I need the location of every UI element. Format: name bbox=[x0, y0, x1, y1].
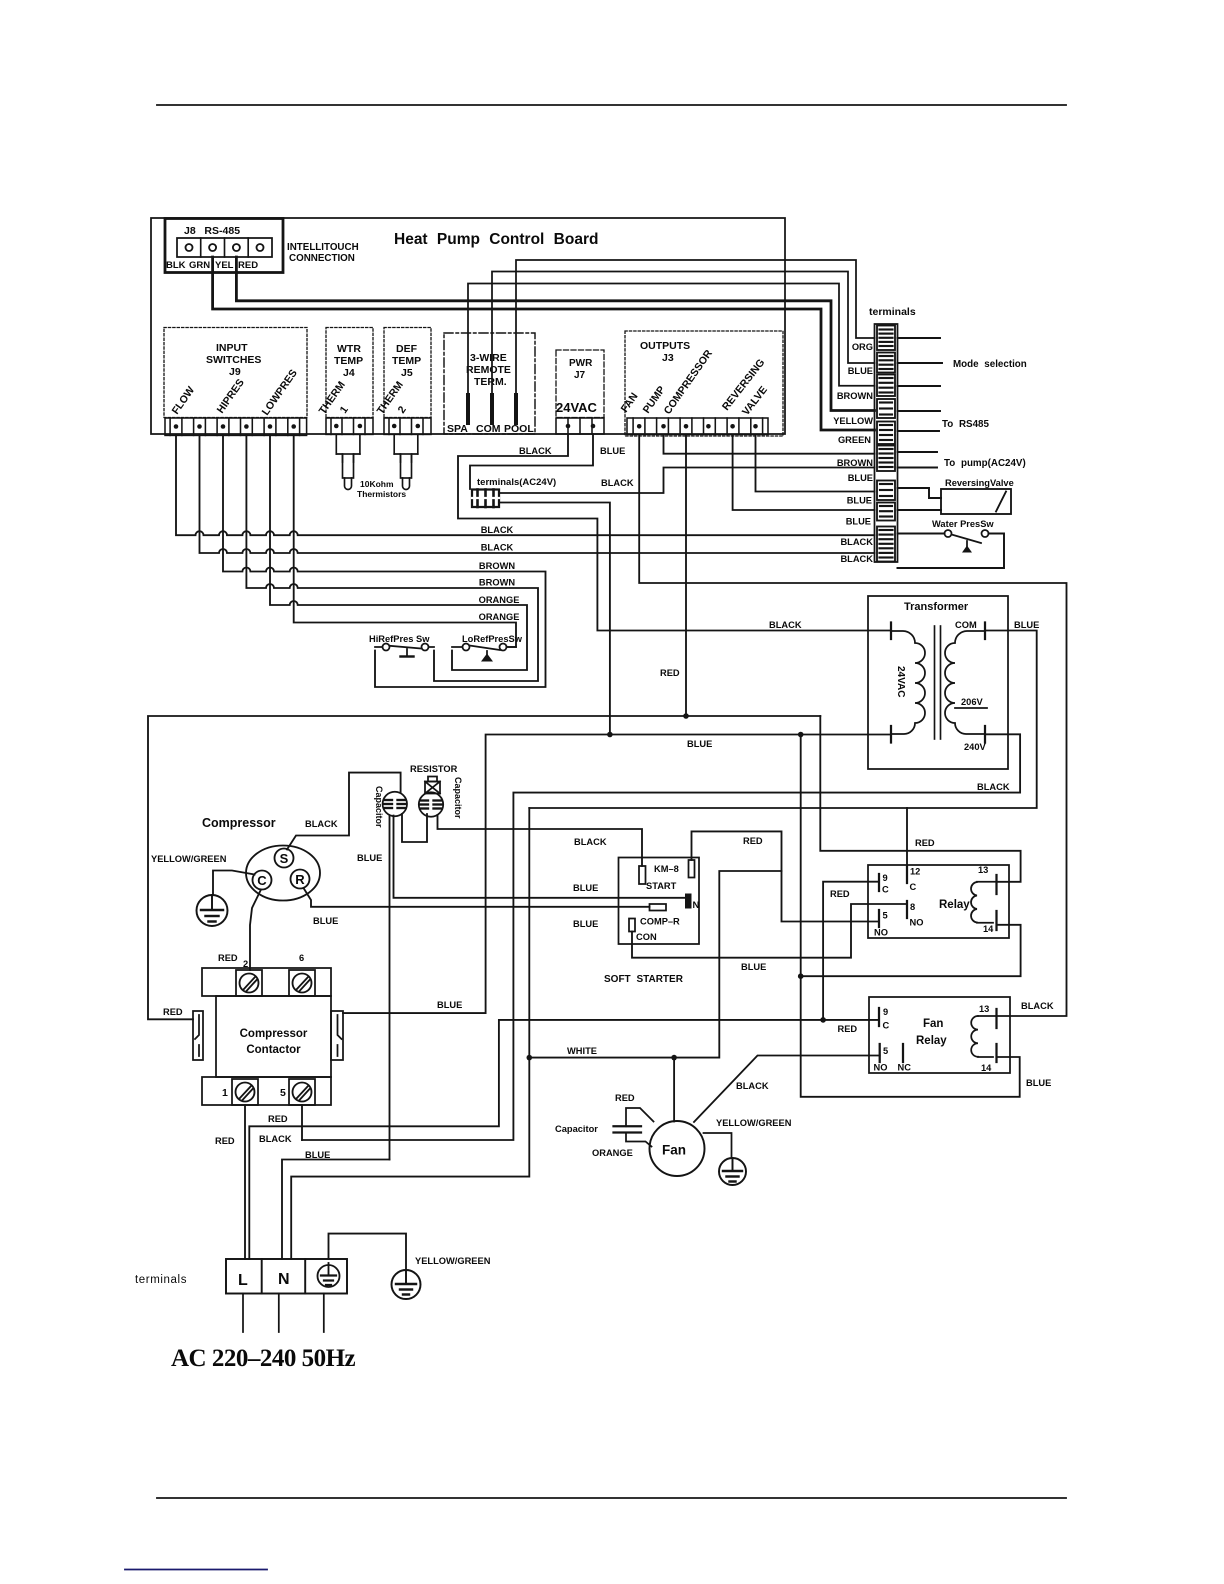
svg-text:WTR: WTR bbox=[337, 343, 361, 355]
svg-text:TEMP: TEMP bbox=[392, 355, 421, 367]
strip box COM bbox=[877, 353, 895, 373]
svg-text:C: C bbox=[882, 885, 889, 895]
svg-text:SWITCHES: SWITCHES bbox=[206, 354, 261, 366]
label RED vert bbox=[215, 1136, 235, 1146]
wire J9 FLOW-1 black long bbox=[176, 435, 875, 535]
svg-text:ORANGE: ORANGE bbox=[592, 1148, 633, 1158]
svg-text:FLOW: FLOW bbox=[170, 384, 198, 416]
strip box IT bbox=[877, 399, 895, 418]
svg-text:RED: RED bbox=[218, 953, 238, 963]
J8 labels bbox=[166, 225, 258, 271]
wire S black to capacitor bbox=[287, 773, 401, 850]
label Water PresSw bbox=[932, 519, 994, 529]
contactor screw 1 bbox=[236, 1083, 255, 1102]
svg-text:WHITE: WHITE bbox=[567, 1046, 597, 1056]
dashed box WTR TEMP J4 bbox=[326, 328, 373, 418]
label YELLOW/GREEN bottom bbox=[415, 1256, 491, 1266]
wire strip RV2 to valve bbox=[898, 509, 942, 511]
label BLUE contactor6 bbox=[437, 1000, 462, 1010]
svg-text:AC 220–240 50Hz: AC 220–240 50Hz bbox=[171, 1345, 356, 1372]
wire contactor5 stub bbox=[301, 1105, 303, 1140]
svg-text:RED: RED bbox=[268, 1114, 288, 1124]
svg-text:BLACK: BLACK bbox=[601, 478, 634, 488]
wire red to relay coil 13 bbox=[820, 716, 1020, 882]
svg-text:ORANGE: ORANGE bbox=[479, 612, 520, 622]
wire POOL to strip ORG bbox=[516, 260, 875, 395]
wire labels left runs bbox=[479, 525, 520, 622]
svg-text:J7: J7 bbox=[574, 370, 586, 381]
svg-text:L: L bbox=[238, 1272, 248, 1289]
wire white net vertical bbox=[291, 808, 529, 1259]
terminals vertical strip (right) bbox=[875, 324, 898, 562]
wire POOL stub bbox=[514, 395, 518, 423]
wire fan cap bottom orange bbox=[626, 1133, 652, 1147]
label To pump(AC24V) bbox=[944, 458, 1026, 469]
svg-text:C: C bbox=[257, 873, 267, 888]
label Capacitor rotated left bbox=[374, 786, 384, 828]
svg-text:Relay: Relay bbox=[939, 899, 970, 911]
contactor body bbox=[216, 996, 331, 1077]
relay K1 box bbox=[868, 865, 1009, 938]
label 10Kohm Thermistors bbox=[357, 479, 406, 499]
pin CON bbox=[629, 919, 635, 932]
wire connector down black bbox=[499, 503, 610, 735]
ground symbol in terminal block bbox=[318, 1263, 340, 1287]
wire cap1 left leg long bbox=[389, 816, 391, 1160]
svg-text:14: 14 bbox=[981, 1063, 992, 1073]
svg-text:terminals: terminals bbox=[869, 306, 916, 318]
junction dot blue-right bbox=[798, 732, 804, 738]
wire J3 FAN run bbox=[639, 435, 1066, 1017]
fan relay K2 box bbox=[869, 997, 1010, 1073]
label BLUE n-pin bbox=[573, 883, 598, 893]
svg-text:Fan: Fan bbox=[923, 1018, 943, 1030]
page bottom rule bbox=[157, 1497, 1066, 1499]
svg-text:J8 RS-485: J8 RS-485 bbox=[184, 225, 240, 237]
svg-text:ORANGE: ORANGE bbox=[479, 595, 520, 605]
resistor R1 bbox=[425, 777, 440, 794]
svg-text:BLUE: BLUE bbox=[687, 739, 712, 749]
footnote underline bbox=[125, 1569, 267, 1571]
wire C to ground bbox=[213, 871, 255, 896]
label COM bbox=[955, 620, 977, 630]
relay coil bbox=[971, 882, 996, 923]
wire 24VAC left to transformer black bbox=[458, 434, 891, 631]
svg-text:J4: J4 bbox=[343, 367, 355, 379]
label BLACK compressor bbox=[305, 819, 338, 829]
svg-text:C: C bbox=[883, 1021, 890, 1031]
connector terminals AC24V bbox=[472, 490, 499, 508]
wire COM net bbox=[529, 631, 1036, 809]
svg-text:ORG: ORG bbox=[852, 342, 873, 352]
svg-text:SPA: SPA bbox=[447, 423, 468, 435]
svg-text:BLACK: BLACK bbox=[519, 446, 552, 456]
label CON bbox=[636, 932, 657, 942]
svg-text:Water PresSw: Water PresSw bbox=[932, 519, 994, 529]
svg-text:Heat Pump Control Board: Heat Pump Control Board bbox=[394, 231, 598, 248]
svg-text:NO: NO bbox=[874, 1063, 888, 1073]
transformer secondary coil bbox=[945, 631, 987, 734]
svg-text:SOFT STARTER: SOFT STARTER bbox=[604, 974, 684, 985]
wire red fanrelay pin9 long bbox=[249, 1020, 879, 1259]
svg-text:Compressor: Compressor bbox=[240, 1028, 308, 1040]
label 240V bbox=[964, 742, 987, 752]
wire cap2 to start pin bbox=[438, 815, 643, 866]
svg-text:Fan: Fan bbox=[662, 1143, 686, 1158]
pin START bbox=[639, 866, 646, 884]
label RED 2 contactor bbox=[218, 953, 248, 969]
svg-text:8: 8 bbox=[910, 902, 915, 912]
wire COM to strip BLUE bbox=[492, 272, 875, 396]
label BLACK diag bbox=[736, 1081, 769, 1091]
svg-text:206V: 206V bbox=[961, 697, 984, 707]
svg-text:RED: RED bbox=[838, 1024, 858, 1034]
fan relay pin ticks bbox=[879, 1008, 997, 1062]
dashed box INPUT SWITCHES J9 bbox=[164, 328, 307, 418]
label To RS485 bbox=[942, 419, 989, 430]
label Fan bbox=[662, 1143, 686, 1158]
svg-text:YELLOW/GREEN: YELLOW/GREEN bbox=[151, 854, 227, 864]
svg-text:RED: RED bbox=[615, 1093, 635, 1103]
svg-text:R: R bbox=[295, 872, 305, 887]
svg-text:BROWN: BROWN bbox=[837, 458, 873, 468]
svg-text:RED: RED bbox=[915, 838, 935, 848]
wire 24VAC right to AC24V connector bbox=[470, 434, 593, 489]
wire fan to ground bbox=[704, 1133, 732, 1158]
label COMP-R bbox=[640, 917, 680, 927]
label BLACK fanrelay13 bbox=[1021, 1001, 1054, 1011]
contactor left arm bbox=[193, 1011, 203, 1060]
thermistor 1 bbox=[336, 434, 360, 489]
svg-text:To pump(AC24V): To pump(AC24V) bbox=[944, 458, 1026, 469]
wire relay pin14 blue bbox=[801, 925, 1021, 976]
label HiRefPres Sw bbox=[369, 634, 430, 644]
svg-text:Contactor: Contactor bbox=[246, 1044, 301, 1056]
svg-text:BLUE: BLUE bbox=[847, 496, 872, 506]
svg-text:5: 5 bbox=[280, 1087, 286, 1099]
wire relay pin9 red bbox=[823, 882, 879, 1020]
svg-text:DEF: DEF bbox=[396, 343, 418, 355]
svg-text:YELLOW: YELLOW bbox=[833, 416, 873, 426]
wire J3 PUMP to strip bbox=[664, 435, 875, 454]
svg-text:RED: RED bbox=[830, 889, 850, 899]
label BLACK 24vac bbox=[519, 446, 552, 456]
svg-text:LoRefPresSw: LoRefPresSw bbox=[462, 634, 523, 644]
wire J9 HIPRES brown2 bbox=[246, 435, 538, 681]
label BLUE bottom bbox=[305, 1150, 330, 1160]
svg-text:YELLOW/GREEN: YELLOW/GREEN bbox=[716, 1118, 792, 1128]
wire strip RV1 to valve bbox=[898, 488, 942, 498]
svg-text:Compressor: Compressor bbox=[202, 816, 276, 830]
svg-text:To RS485: To RS485 bbox=[942, 419, 989, 430]
svg-text:BLUE: BLUE bbox=[437, 1000, 462, 1010]
soft starter U1 box bbox=[619, 858, 700, 945]
label terminals bottom bbox=[135, 1274, 187, 1286]
wire J9 FLOW-2 black long bbox=[200, 435, 875, 553]
svg-text:PWR: PWR bbox=[569, 358, 593, 369]
board outline Heat Pump Control Board bbox=[151, 218, 785, 434]
svg-text:INTELLITOUCH: INTELLITOUCH bbox=[287, 242, 359, 253]
svg-text:RED: RED bbox=[215, 1136, 235, 1146]
svg-text:RESISTOR: RESISTOR bbox=[410, 764, 458, 774]
svg-text:BLUE: BLUE bbox=[1026, 1078, 1051, 1088]
wire connector to pump row (brown) bbox=[499, 468, 875, 494]
svg-text:RED: RED bbox=[660, 668, 680, 678]
svg-text:RED: RED bbox=[743, 836, 763, 846]
svg-text:N: N bbox=[278, 1271, 290, 1288]
label YELLOW/GREEN fan bbox=[716, 1118, 792, 1128]
capacitor C1 bbox=[383, 792, 407, 816]
svg-text:BLACK: BLACK bbox=[840, 537, 873, 547]
label RED fanrelay9 bbox=[838, 1024, 858, 1034]
svg-text:BLACK: BLACK bbox=[1021, 1001, 1054, 1011]
wire SPA to strip BROWN bbox=[468, 284, 875, 396]
label RED bottom h bbox=[268, 1114, 288, 1124]
svg-text:YELLOW/GREEN: YELLOW/GREEN bbox=[415, 1256, 491, 1266]
label WHITE bbox=[567, 1046, 597, 1056]
svg-text:START: START bbox=[646, 881, 677, 891]
label START bbox=[646, 881, 677, 891]
pin KM-8 bbox=[689, 860, 695, 878]
svg-text:OUTPUTS: OUTPUTS bbox=[640, 340, 690, 352]
thermistor 2 bbox=[394, 434, 418, 489]
dash-dot box 3-WIRE REMOTE TERM bbox=[444, 333, 535, 434]
wire contactor1 to L bbox=[244, 1105, 246, 1259]
wire blue transformer bottom bbox=[343, 735, 891, 1014]
wire cap1 to cap2 bottom U bbox=[402, 814, 427, 842]
reversing valve box bbox=[941, 489, 1011, 514]
svg-text:BLUE: BLUE bbox=[846, 517, 871, 527]
junction dot blue fanrelay bbox=[798, 973, 804, 979]
svg-text:BLACK: BLACK bbox=[977, 782, 1010, 792]
label RED compressor bbox=[660, 668, 680, 678]
svg-text:9: 9 bbox=[883, 1007, 888, 1017]
page top rule bbox=[157, 104, 1066, 106]
label N bbox=[693, 900, 700, 911]
label Fan Relay bbox=[916, 1018, 947, 1047]
relay coil pin ticks 13 14 bbox=[995, 875, 997, 930]
wire J9 HIPRES brown1 bbox=[223, 435, 546, 687]
svg-text:terminals(AC24V): terminals(AC24V) bbox=[477, 477, 556, 488]
svg-text:BLACK: BLACK bbox=[736, 1081, 769, 1091]
svg-text:Capacitor: Capacitor bbox=[374, 786, 384, 828]
strip box POOL bbox=[877, 326, 895, 351]
label RED relay13 bbox=[915, 838, 935, 848]
label RED fan bbox=[615, 1093, 635, 1103]
label terminals bbox=[869, 306, 916, 318]
wire stubs below terminals bbox=[243, 1294, 324, 1333]
svg-text:J3: J3 bbox=[662, 352, 674, 364]
label Compressor bbox=[202, 816, 276, 830]
svg-text:GRN: GRN bbox=[189, 260, 210, 271]
label RED km8 bbox=[743, 836, 763, 846]
svg-text:C: C bbox=[910, 882, 917, 892]
svg-text:RED: RED bbox=[238, 260, 258, 271]
label BLACK soft starter bbox=[574, 837, 607, 847]
wire J9 LOWPRES orange2 bbox=[294, 435, 516, 647]
svg-text:24VAC: 24VAC bbox=[895, 666, 906, 698]
terminal strip J3 bbox=[627, 418, 768, 435]
junction dot white-V bbox=[527, 1055, 533, 1061]
label BLUE compressor R bbox=[313, 916, 338, 926]
label 6 contactor bbox=[299, 953, 304, 963]
svg-text:BLACK: BLACK bbox=[481, 543, 514, 553]
label KM-8 bbox=[654, 864, 679, 874]
label BLACK right bbox=[977, 782, 1010, 792]
svg-text:J5: J5 bbox=[401, 367, 413, 379]
label RESISTOR bbox=[410, 764, 458, 774]
label BLUE mid bbox=[687, 739, 712, 749]
wire switch return bbox=[898, 534, 1005, 569]
label N bbox=[278, 1271, 290, 1288]
svg-text:BLUE: BLUE bbox=[573, 883, 598, 893]
contactor bottom strip bbox=[202, 1077, 331, 1105]
svg-text:POOL: POOL bbox=[504, 423, 534, 435]
wire R blue to comp-r bbox=[304, 888, 650, 907]
wire strip row4 right (to RS485) bbox=[898, 410, 941, 412]
transformer terminal ticks bbox=[891, 623, 985, 743]
transformer primary coil bbox=[891, 631, 925, 734]
wire fan feed vertical bbox=[673, 1058, 675, 1122]
relay pin labels bbox=[874, 867, 923, 938]
wire strip row1 right bbox=[898, 337, 941, 339]
svg-text:BLUE: BLUE bbox=[313, 916, 338, 926]
svg-text:TERM.: TERM. bbox=[474, 376, 507, 388]
label BLUE j7 bbox=[600, 446, 625, 456]
svg-text:YEL: YEL bbox=[215, 260, 234, 271]
capacitor C2 bbox=[419, 792, 443, 816]
wire J8 YEL to terminal strip YELLOW (thick) bbox=[236, 257, 874, 411]
label BLUE com right bbox=[1014, 620, 1039, 630]
label ORANGE fan bbox=[592, 1148, 633, 1158]
fan relay coil bbox=[971, 1016, 996, 1057]
svg-text:10Kohm: 10Kohm bbox=[360, 479, 394, 489]
wire fanrelay pin5 black diagonal bbox=[694, 1056, 880, 1123]
resistor COMP-R bbox=[650, 904, 667, 911]
svg-text:INPUT: INPUT bbox=[216, 342, 248, 354]
svg-text:Thermistors: Thermistors bbox=[357, 489, 406, 499]
wire fan cap top red bbox=[626, 1108, 654, 1126]
svg-text:CON: CON bbox=[636, 932, 657, 942]
svg-text:NC: NC bbox=[898, 1063, 912, 1073]
terminal strip J5 bbox=[384, 418, 431, 434]
svg-text:FAN: FAN bbox=[619, 391, 641, 415]
svg-text:6: 6 bbox=[299, 953, 304, 963]
labels 13 14 relay bbox=[978, 865, 994, 934]
fan capacitor C3 bbox=[614, 1126, 642, 1132]
label Mode selection bbox=[953, 359, 1027, 370]
svg-text:BLUE: BLUE bbox=[1014, 620, 1039, 630]
label 24VAC rotated bbox=[895, 666, 906, 698]
label RED left bbox=[163, 1007, 183, 1017]
svg-text:LOWPRES: LOWPRES bbox=[260, 367, 300, 417]
svg-text:KM–8: KM–8 bbox=[654, 864, 679, 874]
strip box RV2 bbox=[877, 503, 895, 521]
svg-text:12: 12 bbox=[910, 867, 920, 877]
svg-text:5: 5 bbox=[883, 911, 888, 921]
svg-text:BLACK: BLACK bbox=[305, 819, 338, 829]
svg-text:NO: NO bbox=[910, 918, 924, 928]
label LoRefPresSw bbox=[462, 634, 523, 644]
wire SPA stub bbox=[466, 395, 470, 423]
junction dot compressor red bbox=[683, 713, 689, 719]
label Capacitor rotated right bbox=[453, 777, 463, 819]
label YELLOW/GREEN compressor bbox=[151, 854, 227, 864]
svg-text:REMOTE: REMOTE bbox=[466, 364, 511, 376]
svg-text:Mode selection: Mode selection bbox=[953, 359, 1027, 370]
label ReversingValve bbox=[945, 478, 1014, 488]
contactor screw 2 bbox=[240, 974, 259, 993]
fan relay pin labels bbox=[874, 1004, 993, 1073]
wire J3 reversing valve 1 bbox=[756, 435, 875, 492]
svg-text:COM: COM bbox=[955, 620, 977, 630]
wire cap1 right leg to N pin bbox=[394, 816, 686, 898]
label Capacitor fan bbox=[555, 1124, 598, 1134]
svg-text:14: 14 bbox=[983, 924, 994, 934]
wire J8 GRN to terminal strip GREEN (thick) bbox=[213, 257, 875, 430]
label Relay bbox=[939, 899, 970, 911]
label BLUE bottom loop bbox=[1026, 1078, 1051, 1088]
connector J8 RS-485 bbox=[165, 219, 283, 273]
junction dot fan top bbox=[671, 1055, 677, 1061]
svg-text:BLUE: BLUE bbox=[741, 962, 766, 972]
label SOFT STARTER bbox=[604, 974, 684, 985]
svg-text:BLACK: BLACK bbox=[574, 837, 607, 847]
svg-text:BLUE: BLUE bbox=[357, 853, 382, 863]
wire J9 LOWPRES orange1 bbox=[270, 435, 527, 670]
wire CON blue bbox=[632, 904, 907, 958]
svg-text:terminals: terminals bbox=[135, 1274, 187, 1286]
label AC 220-240 50Hz bbox=[171, 1345, 356, 1372]
svg-text:BLUE: BLUE bbox=[305, 1150, 330, 1160]
junction dot blue-left bbox=[607, 732, 613, 738]
strip box RV1 bbox=[877, 481, 895, 501]
svg-text:BROWN: BROWN bbox=[479, 578, 515, 588]
ground symbol external bbox=[392, 1270, 421, 1299]
svg-text:5: 5 bbox=[883, 1046, 888, 1056]
svg-text:Relay: Relay bbox=[916, 1035, 947, 1047]
svg-text:NO: NO bbox=[874, 928, 888, 938]
wire blue to relay coil14 bbox=[801, 735, 1020, 1097]
label BLUE comp-r bbox=[573, 919, 598, 929]
svg-text:1: 1 bbox=[222, 1087, 228, 1099]
wire J3 reversing valve 2 bbox=[733, 435, 875, 511]
svg-text:3-WIRE: 3-WIRE bbox=[470, 352, 507, 364]
svg-text:BLUE: BLUE bbox=[573, 919, 598, 929]
svg-text:1: 1 bbox=[338, 404, 351, 416]
contactor screw 6 bbox=[293, 974, 312, 993]
svg-text:Capacitor: Capacitor bbox=[453, 777, 463, 819]
label terminals(AC24V) bbox=[477, 477, 556, 488]
svg-text:13: 13 bbox=[978, 865, 988, 875]
ground symbol compressor bbox=[197, 895, 228, 926]
svg-text:240V: 240V bbox=[964, 742, 987, 752]
label RED pin8 bbox=[830, 889, 850, 899]
contactor top strip bbox=[202, 968, 331, 996]
svg-text:BLUE: BLUE bbox=[848, 366, 873, 376]
wire strip row2 right (mode selection) bbox=[898, 362, 943, 364]
label BLACK connector bbox=[601, 478, 634, 488]
wire J3 COMPRESSOR red vertical bbox=[685, 435, 687, 717]
wire 240V net bbox=[302, 734, 1020, 1140]
strip box FLOW bbox=[877, 527, 895, 562]
label 206V bbox=[961, 697, 984, 707]
terminal strip J4 bbox=[326, 418, 373, 434]
switch Lo refrigerant pressure bbox=[452, 644, 516, 662]
relay pin ticks bbox=[879, 866, 907, 927]
terminal strip J9 bbox=[165, 418, 307, 435]
svg-text:9: 9 bbox=[883, 873, 888, 883]
